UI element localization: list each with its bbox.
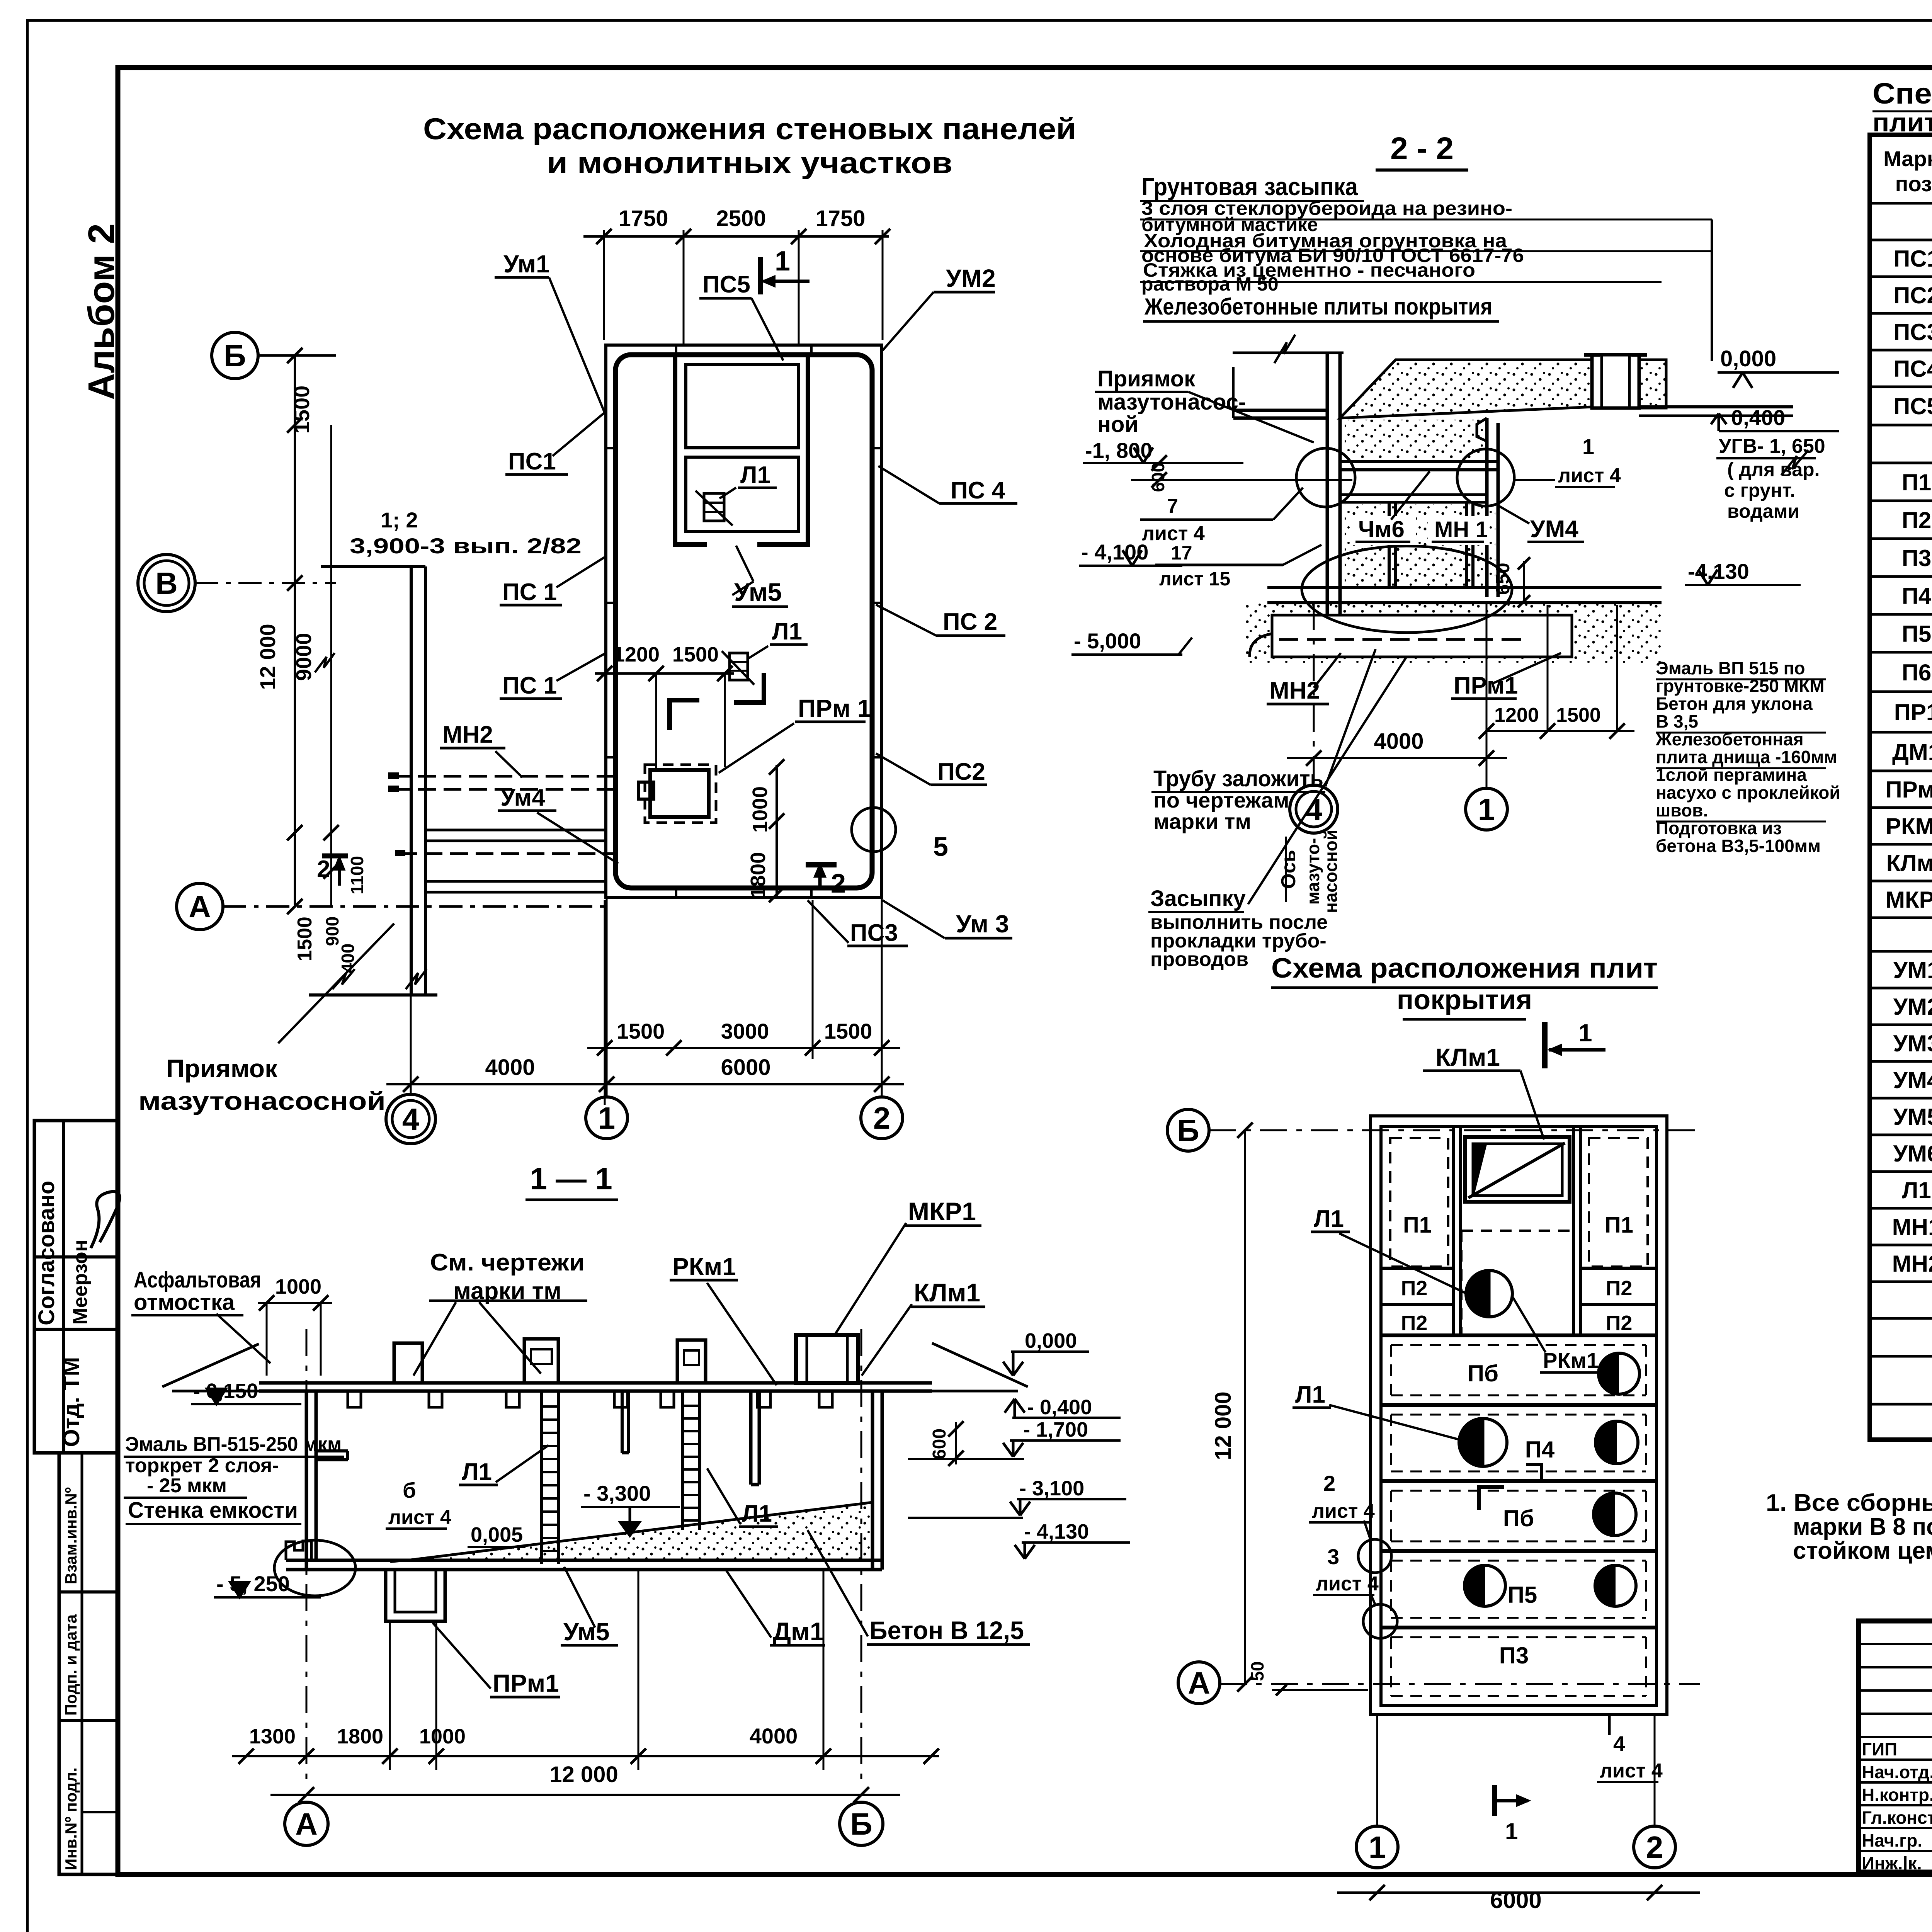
svg-text:- 0,400: - 0,400: [1027, 1396, 1092, 1419]
sec2-2 top cut line with break: [1233, 352, 1344, 354]
svg-text:0,000: 0,000: [1025, 1329, 1077, 1352]
svg-text:Нач.гр.: Нач.гр.: [1862, 1830, 1922, 1850]
svg-text:- 3,300: - 3,300: [583, 1481, 651, 1505]
axis circle В: [138, 554, 195, 612]
svg-text:( для вар.: ( для вар.: [1727, 459, 1820, 480]
svg-text:2: 2: [873, 1101, 891, 1135]
svg-text:ПРм1: ПРм1: [1886, 777, 1932, 803]
svg-text:ПС 4: ПС 4: [951, 477, 1005, 504]
svg-text:МН 1: МН 1: [1434, 517, 1488, 542]
sec1-1 top slab lines: [259, 1381, 932, 1385]
svg-text:Б: Б: [1177, 1113, 1199, 1148]
dashed plate boundary П1 right: [1589, 1138, 1648, 1267]
hanging partition: [749, 1391, 753, 1485]
svg-text:МН2: МН2: [442, 721, 493, 748]
svg-text:МН2: МН2: [1892, 1251, 1932, 1277]
svg-text:А: А: [1188, 1666, 1210, 1700]
right ground lines: [1592, 405, 1793, 408]
svg-text:Отд. ТМ: Отд. ТМ: [58, 1357, 84, 1447]
wall break marks: [315, 653, 335, 672]
svg-text:УМ6: УМ6: [1893, 1141, 1932, 1167]
svg-text:ПС3: ПС3: [1893, 319, 1932, 345]
svg-text:Л1: Л1: [772, 618, 802, 645]
section mark 2 (left): [322, 854, 348, 859]
section mark 1 (plan2 bottom): [1492, 1785, 1497, 1816]
MH2 pipes dashed: [393, 775, 618, 778]
svg-text:П6: П6: [1902, 660, 1932, 685]
pipe stub into ПРм1 box: [638, 782, 654, 799]
sand between beams: [1345, 420, 1484, 460]
svg-text:Спецификация элементов к сх: Спецификация элементов к схемам располож…: [1872, 77, 1932, 110]
svg-text:мазутонасос-: мазутонасос-: [1097, 389, 1246, 415]
svg-text:3: 3: [1327, 1544, 1339, 1569]
svg-text:ДМ1: ДМ1: [1892, 739, 1932, 765]
svg-text:ПС4: ПС4: [1893, 356, 1932, 382]
svg-text:Л1: Л1: [1295, 1381, 1325, 1408]
svg-text:ПС5: ПС5: [1893, 393, 1932, 419]
svg-text:проводов: проводов: [1150, 948, 1248, 971]
svg-text:2 - 2: 2 - 2: [1390, 131, 1454, 166]
svg-text:Л1: Л1: [742, 1500, 772, 1527]
svg-text:1. Все сборные элементы вып: 1. Все сборные элементы выполнять из бет…: [1766, 1490, 1932, 1516]
svg-text:1: 1: [598, 1101, 616, 1135]
svg-text:Бетон В 12,5: Бетон В 12,5: [869, 1616, 1024, 1645]
pit box ПРм1 dashed: [645, 765, 716, 823]
svg-text:650: 650: [1492, 563, 1514, 595]
svg-text:Гл.конст.: Гл.конст.: [1862, 1808, 1932, 1828]
svg-text:4: 4: [1305, 792, 1323, 827]
plan1 inner wall (rounded): [616, 355, 872, 888]
svg-text:0,400: 0,400: [1731, 405, 1785, 430]
svg-text:плита днища -160мм: плита днища -160мм: [1656, 747, 1837, 767]
rib teeth under slab: [348, 1391, 361, 1407]
svg-text:А: А: [189, 889, 211, 924]
concrete upstand box top right: [1592, 355, 1639, 408]
svg-text:поз.: поз.: [1895, 172, 1932, 196]
svg-text:УМ2: УМ2: [1893, 994, 1932, 1020]
svg-text:Железобетонные плиты покрыт: Железобетонные плиты покрытия: [1144, 294, 1492, 320]
hole circles plan2: [1599, 1353, 1639, 1394]
svg-text:Взам.инв.Nº: Взам.инв.Nº: [62, 1487, 80, 1584]
svg-text:П4: П4: [1525, 1437, 1555, 1463]
svg-text:1; 2: 1; 2: [381, 508, 418, 532]
axis circle А: [177, 883, 223, 930]
plan2 inner wall: [1381, 1126, 1656, 1706]
svg-text:лист 4: лист 4: [1312, 1500, 1375, 1522]
svg-text:УМ4: УМ4: [1893, 1067, 1932, 1093]
corner marks: [670, 700, 699, 730]
section mark 1 (plan2 top): [1542, 1022, 1548, 1068]
axis circle А: [285, 1802, 328, 1845]
slope line and 0,005: [390, 1560, 408, 1562]
svg-text:1750: 1750: [618, 206, 668, 231]
svg-text:П1: П1: [1403, 1213, 1432, 1238]
svg-text:В: В: [155, 566, 178, 600]
svg-text:Пб: Пб: [1503, 1505, 1534, 1531]
axis circle 4: [386, 1094, 435, 1144]
svg-text:насосной: насосной: [1321, 830, 1341, 913]
svg-text:400: 400: [338, 944, 358, 973]
svg-text:Б: Б: [224, 338, 246, 373]
МКР1 cover box: [796, 1335, 858, 1383]
svg-text:ПРм 1: ПРм 1: [798, 694, 871, 722]
title block left-section row lines: [1859, 1643, 1932, 1645]
svg-text:ПС2: ПС2: [1893, 282, 1932, 308]
axis circle Б: [212, 332, 258, 379]
svg-text:1000: 1000: [275, 1275, 321, 1298]
svg-text:ПС 2: ПС 2: [943, 609, 997, 635]
svg-text:Н.контр.: Н.контр.: [1862, 1785, 1932, 1805]
svg-text:4: 4: [1613, 1731, 1625, 1756]
svg-text:КЛм1: КЛм1: [1435, 1043, 1500, 1071]
svg-text:П1: П1: [1902, 469, 1932, 495]
svg-text:1500: 1500: [294, 917, 316, 961]
svg-text:- 4,130: - 4,130: [1024, 1520, 1089, 1543]
axis circle А: [1178, 1662, 1220, 1704]
svg-text:П5: П5: [1902, 621, 1932, 647]
svg-text:ПС3: ПС3: [850, 920, 898, 946]
svg-text:Бетон для уклона: Бетон для уклона: [1656, 694, 1813, 714]
svg-text:ПР1: ПР1: [1894, 699, 1932, 725]
svg-text:1800: 1800: [747, 852, 770, 898]
inner beam lines: [1340, 460, 1498, 463]
UM4 dashed pipe: [399, 852, 618, 855]
svg-text:б: б: [403, 1478, 416, 1502]
left wall foot detail: [274, 1540, 355, 1596]
tank right wall (sec2-2): [1485, 418, 1489, 597]
sec1-1 tank walls: [305, 1391, 308, 1570]
svg-text:мазуто-: мазуто-: [1303, 838, 1323, 905]
svg-text:4000: 4000: [485, 1055, 535, 1080]
svg-text:РКм1: РКм1: [672, 1253, 736, 1281]
svg-text:лист 4: лист 4: [1558, 464, 1621, 487]
svg-text:лист 4: лист 4: [1600, 1760, 1663, 1782]
svg-text:КЛм1: КЛм1: [1886, 850, 1932, 876]
svg-text:2: 2: [317, 856, 330, 883]
svg-text:См. чертежи: См. чертежи: [430, 1249, 585, 1276]
title block frame: [1859, 1621, 1932, 1872]
svg-text:50: 50: [1247, 1661, 1267, 1681]
svg-text:900: 900: [322, 917, 342, 946]
svg-text:ПС 1: ПС 1: [502, 672, 557, 699]
small wall stub: [316, 1449, 348, 1452]
svg-text:Инв.Nº подл.: Инв.Nº подл.: [62, 1767, 80, 1870]
leader from note stack into drawing: [1711, 219, 1713, 361]
svg-text:5: 5: [933, 832, 948, 862]
svg-text:600: 600: [929, 1429, 950, 1459]
svg-text:0,000: 0,000: [1720, 346, 1776, 371]
axis circle 2: [1634, 1826, 1675, 1868]
svg-text:МКР1: МКР1: [908, 1197, 976, 1226]
svg-text:1500: 1500: [1556, 704, 1601, 726]
section mark 2 (bottom): [806, 862, 837, 867]
svg-text:марки В 8 по водонепроницаем: марки В 8 по водонепроницаемости на суль…: [1793, 1514, 1932, 1540]
svg-text:водами: водами: [1727, 500, 1799, 522]
svg-text:раствора М 50: раствора М 50: [1141, 273, 1279, 295]
vertical dim line left (12000/9000): [294, 355, 296, 906]
ladder 2: [681, 1391, 684, 1530]
svg-text:- 5, 250: - 5, 250: [216, 1571, 290, 1596]
svg-text:Марка: Марка: [1883, 146, 1932, 171]
svg-text:Дм1: Дм1: [773, 1617, 824, 1646]
svg-text:Б: Б: [850, 1807, 872, 1841]
svg-text:УМ1: УМ1: [1893, 957, 1932, 983]
detail circles sec2-2: [1296, 448, 1355, 507]
svg-text:Приямок: Приямок: [1097, 366, 1196, 391]
svg-text:1300: 1300: [249, 1725, 296, 1748]
bottom pit stipple strip: [1245, 603, 1662, 663]
svg-text:4: 4: [402, 1102, 420, 1136]
svg-text:УГВ- 1, 650: УГВ- 1, 650: [1719, 435, 1825, 457]
svg-text:Асфальтовая: Асфальтовая: [134, 1267, 261, 1293]
svg-text:насухо с проклейкой: насухо с проклейкой: [1656, 782, 1840, 803]
plan1 outer wall rectangle: [606, 345, 882, 898]
svg-text:- 3,100: - 3,100: [1019, 1477, 1084, 1500]
svg-text:Инж.Ⅰк.: Инж.Ⅰк.: [1862, 1853, 1922, 1873]
dashed strip insets: [1391, 1344, 1646, 1346]
svg-text:2: 2: [1323, 1471, 1335, 1495]
svg-text:1 — 1: 1 — 1: [530, 1162, 612, 1196]
svg-text:по чертежам: по чертежам: [1153, 788, 1289, 812]
svg-text:стойком цементе.: стойком цементе.: [1793, 1537, 1932, 1564]
plan2 horizontal strips: [1381, 1333, 1656, 1337]
spec table grid: [1870, 135, 1932, 1440]
svg-text:4000: 4000: [750, 1724, 798, 1748]
svg-text:РКм1: РКм1: [1543, 1348, 1599, 1372]
approval stamp column: [34, 1121, 118, 1453]
signature squiggle: [91, 1192, 120, 1248]
axis circle 1: [1466, 788, 1507, 830]
svg-text:П3: П3: [1499, 1643, 1529, 1668]
svg-text:П1: П1: [1605, 1213, 1633, 1238]
svg-text:П2: П2: [1902, 507, 1932, 533]
plan2 outer wall: [1371, 1116, 1667, 1714]
svg-text:1: 1: [1582, 434, 1594, 459]
svg-text:0,005: 0,005: [471, 1523, 523, 1546]
svg-text:6000: 6000: [721, 1055, 770, 1080]
svg-text:МН2: МН2: [1269, 677, 1320, 704]
svg-text:1: 1: [1478, 792, 1495, 827]
svg-text:Ум5: Ум5: [734, 578, 782, 606]
РКм1 zone dashed + hole: [1461, 1230, 1574, 1232]
bottom pit and pipe: [1272, 615, 1572, 657]
svg-text:Ум4: Ум4: [500, 784, 545, 811]
svg-text:Железобетонная: Железобетонная: [1655, 729, 1804, 749]
svg-text:А: А: [295, 1807, 318, 1841]
svg-text:мазутонасосной: мазутонасосной: [138, 1087, 386, 1115]
svg-text:П5: П5: [1508, 1582, 1537, 1608]
ladder 1: [540, 1391, 543, 1564]
svg-text:Ум1: Ум1: [503, 250, 550, 278]
svg-text:1200: 1200: [613, 643, 660, 666]
svg-text:УМ4: УМ4: [1530, 516, 1578, 543]
svg-text:Меерзон: Меерзон: [69, 1240, 92, 1325]
svg-text:Л1: Л1: [1902, 1177, 1931, 1203]
section mark 1 (top): [758, 257, 763, 294]
svg-text:В 3,5: В 3,5: [1656, 711, 1698, 731]
sec1-1 bottom slab: [286, 1559, 882, 1562]
plan1 panel joint ticks: [606, 447, 616, 449]
detail circle 5: [852, 808, 896, 852]
svg-text:П2: П2: [1606, 1277, 1633, 1300]
svg-text:Подготовка из: Подготовка из: [1656, 818, 1782, 838]
svg-text:П3: П3: [1902, 545, 1932, 571]
svg-text:1500: 1500: [617, 1019, 665, 1043]
axis circle 1: [1356, 1826, 1398, 1868]
svg-text:17: 17: [1171, 542, 1192, 564]
plan2 top section inner walls: [1452, 1126, 1455, 1335]
svg-text:3000: 3000: [721, 1019, 769, 1043]
svg-text:2500: 2500: [716, 206, 766, 231]
sloped concrete fill: [408, 1502, 872, 1560]
pit walls (приямок): [410, 566, 413, 995]
svg-text:УМ5: УМ5: [1893, 1104, 1932, 1130]
sec1-1 roof upstands: [394, 1343, 422, 1383]
svg-text:- 1,700: - 1,700: [1023, 1418, 1088, 1441]
svg-text:1: 1: [1369, 1830, 1386, 1864]
svg-text:Ум 3: Ум 3: [956, 910, 1009, 938]
svg-text:1800: 1800: [337, 1725, 383, 1748]
svg-text:ПС1: ПС1: [1893, 246, 1932, 272]
hatch glyph: [730, 653, 748, 680]
labels Чм6 МН1 УМ4: [1350, 516, 1416, 545]
svg-text:Ум5: Ум5: [563, 1618, 610, 1646]
svg-text:4000: 4000: [1374, 729, 1423, 754]
svg-text:1100: 1100: [347, 856, 367, 895]
svg-text:ГИП: ГИП: [1862, 1739, 1897, 1759]
axis dash-dot lines sec1-1: [306, 1329, 308, 1781]
svg-text:Л1: Л1: [1314, 1206, 1344, 1232]
svg-text:1слой пергамина: 1слой пергамина: [1656, 765, 1807, 785]
svg-text:Схема расположения стеновых п: Схема расположения стеновых панелей: [423, 112, 1076, 146]
svg-text:МКР1: МКР1: [1886, 887, 1932, 913]
sump pit: [386, 1570, 445, 1621]
svg-text:Эмаль ВП 515 по: Эмаль ВП 515 по: [1656, 658, 1805, 678]
svg-text:Грунтовая засыпка: Грунтовая засыпка: [1141, 173, 1358, 201]
wall break marks right: [1781, 450, 1808, 475]
svg-text:1: 1: [775, 246, 790, 277]
svg-text:Стенка емкости: Стенка емкости: [128, 1498, 298, 1523]
svg-text:покрытия: покрытия: [1397, 985, 1532, 1015]
svg-text:Подп. и дата: Подп. и дата: [62, 1614, 80, 1716]
svg-text:12 000: 12 000: [1211, 1391, 1236, 1460]
ladder symbol L1 in stair shaft: [704, 493, 724, 521]
svg-text:Засыпку: Засыпку: [1150, 886, 1246, 911]
svg-text:1000: 1000: [419, 1725, 466, 1748]
svg-text:КЛм1: КЛм1: [914, 1278, 980, 1307]
svg-text:ПС5: ПС5: [702, 271, 750, 298]
svg-text:лист 4: лист 4: [1142, 522, 1205, 545]
svg-text:УМ3: УМ3: [1893, 1031, 1932, 1056]
svg-text:Л1: Л1: [462, 1459, 492, 1485]
svg-text:- 5,000: - 5,000: [1074, 629, 1141, 653]
axis circle 4: [1290, 785, 1338, 833]
support stubs: [1388, 502, 1391, 587]
svg-text:7: 7: [1167, 495, 1178, 517]
svg-text:12 000: 12 000: [549, 1762, 618, 1787]
svg-text:1000: 1000: [748, 786, 772, 833]
axis circle 2: [861, 1097, 903, 1139]
svg-text:ПС 1: ПС 1: [502, 579, 557, 605]
axis circle Б: [840, 1802, 883, 1845]
hanging bar: [621, 1391, 624, 1453]
svg-text:торкрет 2 слоя-: торкрет 2 слоя-: [125, 1454, 279, 1477]
svg-text:и монолитных участков: и монолитных участков: [547, 146, 952, 180]
svg-text:- 4,100: - 4,100: [1081, 540, 1148, 564]
svg-text:лист 4: лист 4: [388, 1506, 451, 1529]
svg-text:П2: П2: [1606, 1311, 1633, 1335]
svg-text:УМ2: УМ2: [946, 264, 996, 292]
svg-text:ной: ной: [1097, 412, 1138, 437]
sec1-1 ground slope wedges: [162, 1344, 259, 1387]
svg-text:грунтовке-250 МКМ: грунтовке-250 МКМ: [1656, 676, 1824, 696]
svg-text:Чм6: Чм6: [1358, 516, 1405, 542]
svg-text:600: 600: [1148, 463, 1168, 492]
svg-text:Эмаль ВП-515-250 мкм: Эмаль ВП-515-250 мкм: [125, 1433, 342, 1456]
svg-text:1750: 1750: [815, 206, 865, 231]
svg-text:МН1: МН1: [1892, 1214, 1932, 1240]
svg-text:Л1: Л1: [740, 462, 770, 488]
КЛм1 opening box: [1465, 1137, 1570, 1202]
svg-text:1500: 1500: [824, 1019, 872, 1043]
svg-text:2: 2: [831, 868, 846, 898]
svg-text:Согласовано: Согласовано: [34, 1181, 59, 1325]
svg-text:1200: 1200: [1494, 704, 1539, 726]
svg-text:Ось: Ось: [1277, 850, 1300, 889]
svg-text:ПС2: ПС2: [937, 759, 985, 785]
vertical dim 12000 (plan2): [1244, 1130, 1246, 1684]
П2 rows lines: [1381, 1267, 1454, 1270]
lower small dims 1500/900/400: [330, 425, 332, 906]
svg-text:Нач.отд.: Нач.отд.: [1862, 1762, 1932, 1782]
svg-text:лист 4: лист 4: [1316, 1573, 1379, 1595]
svg-text:ПРм1: ПРм1: [493, 1669, 559, 1697]
dashed plate boundary П1 left: [1390, 1138, 1448, 1267]
svg-text:швов.: швов.: [1656, 800, 1708, 820]
svg-text:П2: П2: [1401, 1311, 1428, 1335]
svg-text:отмостка: отмостка: [134, 1290, 235, 1315]
svg-text:марки тм: марки тм: [1153, 809, 1251, 833]
sec2-2 left wall: [1326, 353, 1329, 622]
svg-text:2: 2: [1646, 1830, 1663, 1864]
svg-text:- 25 мкм: - 25 мкм: [147, 1475, 227, 1497]
svg-text:Альбом 2: Альбом 2: [81, 223, 122, 400]
sand fill zone (top): [1340, 360, 1592, 418]
svg-text:1500: 1500: [289, 386, 314, 434]
svg-text:ПС1: ПС1: [508, 448, 556, 475]
svg-text:Пб: Пб: [1468, 1361, 1498, 1386]
plan1 stair enclosure walls: [675, 355, 808, 544]
svg-text:1: 1: [1505, 1818, 1518, 1844]
bottom slab (sec2-2): [1267, 586, 1662, 589]
svg-text:Схема расположения плит: Схема расположения плит: [1271, 953, 1658, 984]
sec2-2 upper floor slab (приямок floor): [1233, 409, 1327, 412]
svg-text:3,900-3 вып. 2/82: 3,900-3 вып. 2/82: [350, 534, 582, 558]
svg-text:-4,130: -4,130: [1688, 559, 1749, 583]
svg-text:П4: П4: [1902, 583, 1932, 609]
svg-text:РКМ1: РКМ1: [1886, 813, 1932, 839]
svg-text:1500: 1500: [672, 643, 719, 666]
svg-text:Приямок: Приямок: [166, 1054, 278, 1083]
svg-text:лист 15: лист 15: [1159, 568, 1230, 590]
svg-text:бетона В3,5-100мм: бетона В3,5-100мм: [1656, 836, 1821, 856]
plan1 top dimension row 1750/2500/1750: [583, 235, 889, 238]
svg-text:с грунт.: с грунт.: [1724, 480, 1795, 501]
axis circle 1: [586, 1097, 628, 1139]
svg-text:6000: 6000: [1490, 1887, 1541, 1913]
svg-text:1: 1: [1578, 1019, 1592, 1047]
channel walls between pit and tank: [425, 829, 606, 832]
